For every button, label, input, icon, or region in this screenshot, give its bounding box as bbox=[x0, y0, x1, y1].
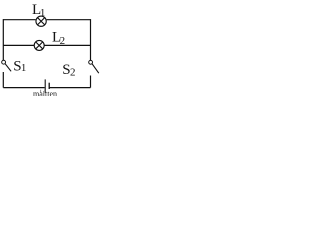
wire: top-left to lamp L1 bbox=[3, 19, 35, 21]
svg-text:1: 1 bbox=[40, 7, 46, 19]
wire: left vertical upper bbox=[2, 19, 4, 60]
wire: middle branch left bbox=[3, 44, 34, 46]
wire: bottom left to battery bbox=[3, 87, 44, 89]
wire: lamp L1 to top-right bbox=[47, 19, 91, 21]
svg-text:1: 1 bbox=[21, 62, 27, 74]
switch S2 lever bbox=[92, 64, 99, 73]
switch S1 lever bbox=[5, 64, 11, 72]
battery short plate bbox=[48, 83, 50, 89]
svg-text:2: 2 bbox=[70, 67, 76, 79]
wire: right vertical upper bbox=[90, 19, 92, 60]
switch S1 pivot bbox=[2, 60, 6, 64]
wire: left vertical lower bbox=[2, 72, 4, 88]
wire: middle branch right bbox=[44, 44, 90, 46]
lamp L2 bbox=[34, 40, 44, 50]
lamp L1 bbox=[36, 16, 46, 26]
switch S2 pivot bbox=[89, 60, 93, 64]
battery long plate bbox=[44, 79, 46, 92]
wire: right vertical lower bbox=[90, 76, 92, 88]
svg-text:2: 2 bbox=[60, 35, 66, 47]
wire: battery to bottom right bbox=[49, 87, 90, 89]
